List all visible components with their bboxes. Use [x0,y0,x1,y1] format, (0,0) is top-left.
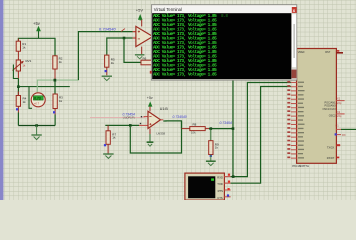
pin RXD stub [224,176,230,178]
power +5V arrow P3 (op-amp2) [147,96,153,111]
svg-text:+5V: +5V [136,8,144,13]
resistor R9 (divider to ground) [209,129,219,155]
wire feedback loop opamp1 [124,38,141,62]
wire output node to RXD drop [209,128,233,130]
wire RXD net [231,83,291,177]
svg-text:10k: 10k [191,131,196,135]
node junction rxd [232,127,235,130]
wire end marker blue [210,155,212,157]
svg-text:8.8: 8.8 [221,14,228,19]
svg-text:LM358: LM358 [157,132,166,136]
wire meter top hook (light) [37,80,55,92]
svg-text:Virtual Terminal: Virtual Terminal [154,7,182,12]
svg-text:+5v: +5v [33,21,41,26]
scrollbar [291,13,296,79]
svg-text:CTS: CTS [217,196,223,200]
svg-text:ADC Value= 173, Voltage= 1.85: ADC Value= 173, Voltage= 1.85 [153,73,217,78]
wire end marker blue [104,144,106,146]
node junction divider [210,127,213,130]
chip right pin mark [337,157,340,159]
red stub at window edge [150,71,152,74]
probe pin mark [121,29,125,32]
chip right pin TX wire [336,128,341,130]
svg-text:1k: 1k [22,46,26,50]
resistor R1 [16,39,26,58]
resistor R8 (series output) [182,123,211,135]
svg-text:X1: X1 [337,97,341,101]
node junction meter tap [54,79,57,82]
node junction fb2 [129,124,132,127]
window frame [151,5,296,81]
svg-text:RTS: RTS [218,189,224,193]
svg-text:OSC2: OSC2 [329,115,336,118]
svg-text:22p: 22p [337,101,342,105]
op-amp U1:B [139,107,168,136]
svg-text:+0.7: +0.7 [34,102,40,106]
wire meter left drop [29,87,32,109]
svg-text:RXD: RXD [217,176,223,180]
terminal body [185,173,225,200]
svg-text:1k: 1k [23,100,27,104]
resistor R5 (to ground) [105,55,115,75]
chip right pin TXCK [337,144,341,146]
node junction ground tap [35,124,38,127]
wire opamp2 plus input [105,124,139,126]
power +5V arrow P1 [33,21,41,38]
svg-text:RST: RST [325,50,331,54]
close button [292,7,297,13]
svg-text:R8: R8 [193,123,197,127]
node junction RXD [232,175,235,178]
wire end marker blue [16,108,18,110]
resistor R7 (to ground) [106,125,116,153]
wire TXD net [231,87,291,184]
svg-text:0.734540: 0.734540 [99,27,116,32]
wire pot wiper hook [13,65,18,79]
wire end marker blue [105,70,107,72]
chip right pin RX [335,133,337,135]
wire feedback loop opamp2 [130,121,181,153]
wire tap to meter (horizontal) [18,86,69,88]
svg-text:RV1: RV1 [26,59,32,63]
ground GND6 [206,155,216,166]
wire opamp1 inverting input [107,38,133,55]
meter M1 (circular gauge) [31,93,45,107]
ground GND5 (op-amp2 V-) [147,129,154,147]
svg-text:RX: RX [342,133,346,137]
wire opamp1 input riser [78,32,132,81]
wire divider to opamp (light segment) [55,79,79,81]
title bar [152,5,296,13]
svg-text:+5v: +5v [147,96,153,100]
svg-text:0.73454: 0.73454 [220,121,232,125]
window edge strip (left) [0,0,3,200]
svg-text:1k: 1k [59,99,63,103]
svg-text:PIC16F877A: PIC16F877A [292,164,309,168]
wire bottom rail [18,125,55,127]
svg-text:RX/DT: RX/DT [327,157,335,160]
chip right pin RST (top) [336,52,343,54]
pin RTS stub [224,189,230,191]
svg-text:x: x [293,8,296,13]
svg-text:0.734540: 0.734540 [173,115,187,119]
ground GND1 [31,126,41,140]
resistor R6 (feedback, partly behind window) [141,57,160,65]
resistor R4 (lower left) [16,92,26,126]
chip left pins (19 stubs, numbers outside, names inside) [291,83,297,159]
pin number marks [141,116,142,117]
svg-text:1k: 1k [112,136,116,140]
svg-text:VREF: VREF [298,50,305,54]
pin CTS stub [224,196,230,198]
wire opamp1 output drop (from behind window) to RXD [232,79,234,177]
node junction R2/R3 [54,79,57,82]
svg-text:X2: X2 [337,110,341,114]
svg-text:U1:B: U1:B [160,107,169,111]
op-amp U1:A [133,26,157,46]
wire left branch down [17,79,19,96]
svg-text:1k: 1k [111,61,115,65]
wire right branch mid [54,81,56,94]
potentiometer RV1 [13,57,32,78]
svg-text:U1(OP1/P): U1(OP1/P) [123,117,135,120]
resistor R3 [53,94,63,126]
chip right pin X1 [336,100,344,102]
svg-text:OSC1/CLKI: OSC1/CLKI [322,108,335,111]
svg-text:22p: 22p [337,114,342,118]
chip right pin X2 [336,113,344,115]
svg-text:0.73: 0.73 [34,96,41,100]
ground GND3 (op-amp1 V-) [135,47,145,59]
svg-text:1k: 1k [59,60,63,64]
wire opamp2 output [163,121,181,129]
wire end marker blue [53,111,55,113]
power +5V arrow P2 (op-amp1) [136,8,144,27]
svg-text:TXD: TXD [217,182,222,186]
pin TXD stub [224,182,230,184]
faint pink guide line [90,116,145,118]
ground GND4 [103,154,113,158]
terminal green text [153,14,228,78]
svg-text:TX/CK: TX/CK [327,146,335,149]
svg-text:1k: 1k [215,146,219,150]
wire +5V rail [18,38,55,55]
svg-text:C1: C1 [335,123,339,127]
node junction left branch [17,85,20,88]
node junction feedback [123,37,126,40]
resistor R2 [53,56,63,82]
terminal screen [152,13,291,79]
ground GND2 [102,76,112,80]
